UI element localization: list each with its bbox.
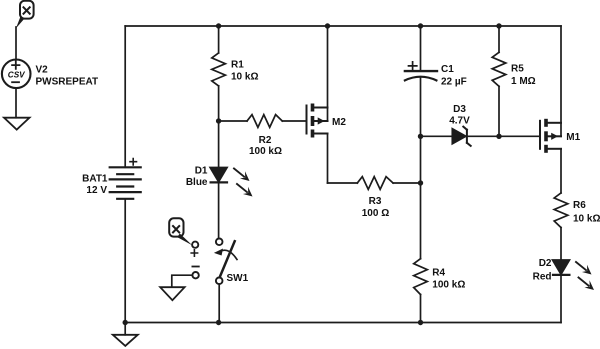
svg-text:M2: M2 [332,117,346,128]
svg-text:M1: M1 [566,132,580,143]
svg-text:1 MΩ: 1 MΩ [511,76,536,87]
svg-text:Red: Red [533,272,552,283]
svg-text:R2: R2 [259,135,272,146]
svg-text:D2: D2 [539,258,552,269]
svg-text:SW1: SW1 [227,273,249,284]
svg-text:4.7V: 4.7V [449,115,470,126]
svg-text:R4: R4 [432,268,445,279]
svg-text:100 kΩ: 100 kΩ [432,279,465,290]
svg-text:Blue: Blue [186,177,208,188]
svg-text:C1: C1 [441,64,454,75]
svg-text:12 V: 12 V [86,185,107,196]
svg-text:CSV: CSV [8,71,26,80]
svg-text:10 kΩ: 10 kΩ [573,214,600,225]
svg-text:100 Ω: 100 Ω [362,208,389,219]
svg-text:R1: R1 [231,60,244,71]
svg-text:22 µF: 22 µF [441,77,467,88]
svg-text:10 kΩ: 10 kΩ [231,72,258,83]
svg-text:R6: R6 [573,200,586,211]
svg-text:R5: R5 [511,64,524,75]
svg-text:R3: R3 [369,196,382,207]
svg-text:D3: D3 [453,104,466,115]
svg-text:100 kΩ: 100 kΩ [249,146,282,157]
svg-text:BAT1: BAT1 [82,174,108,185]
svg-text:D1: D1 [195,166,208,177]
svg-text:PWSREPEAT: PWSREPEAT [36,77,99,88]
svg-text:V2: V2 [36,65,49,76]
